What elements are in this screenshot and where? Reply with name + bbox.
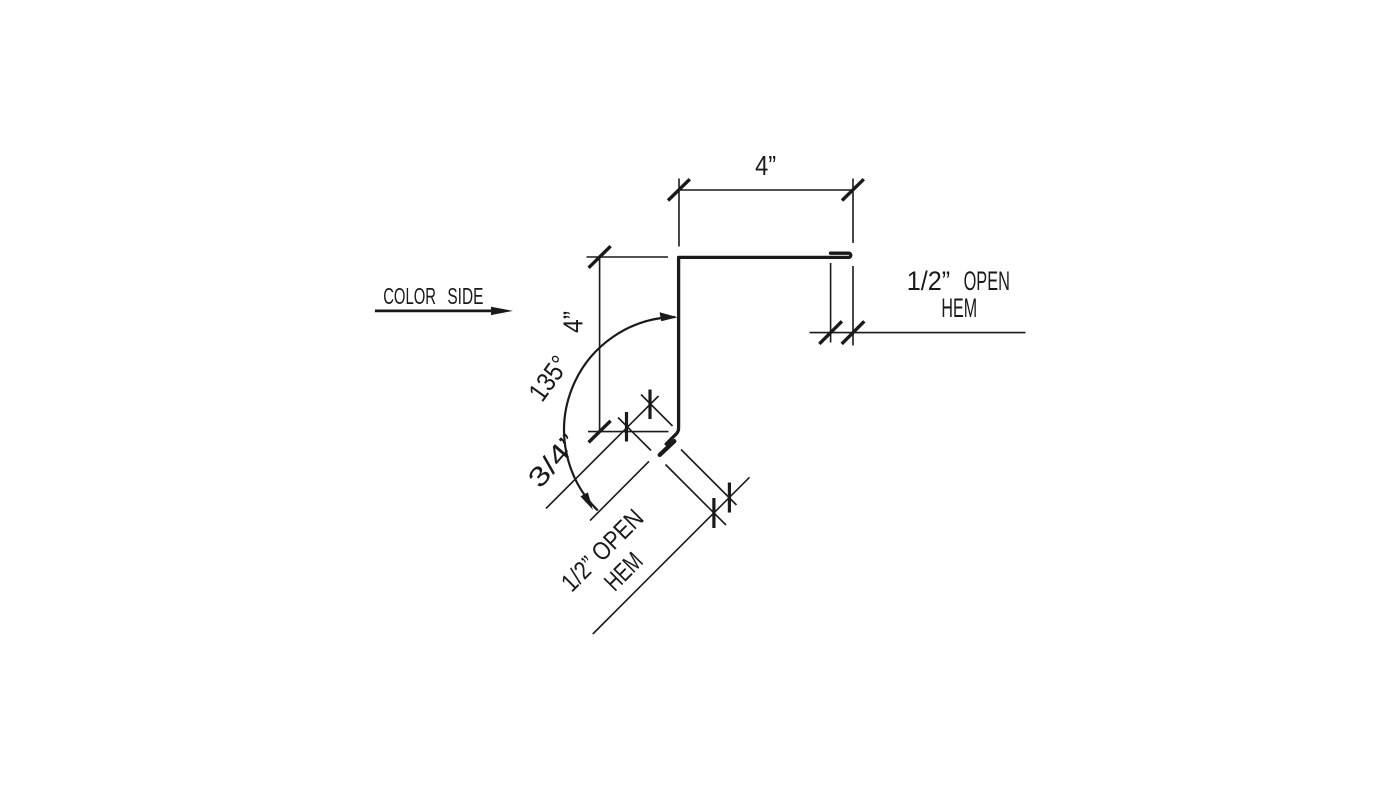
dimension 3/4": extension line through bend bbox=[641, 395, 673, 427]
dimension 3/4": tick T2 bbox=[648, 390, 651, 420]
dimension right 1/2 open hem: right tick bbox=[842, 321, 865, 344]
profile: flashing metal outline with top open hem bbox=[666, 253, 851, 444]
svg-text:4”: 4” bbox=[558, 311, 589, 333]
dimension left 4": top extension line bbox=[587, 256, 669, 258]
color side label: arrowhead bbox=[491, 307, 513, 315]
dimension bottom 1/2 open hem: dimension line bbox=[593, 477, 750, 634]
dimension left 4": dimension line bbox=[599, 257, 601, 432]
dimension 3/4": tick T1 bbox=[625, 412, 628, 442]
dimension bottom 1/2 open hem: rotated text bbox=[556, 504, 671, 619]
dimension right 1/2 open hem: right extension line bbox=[852, 266, 854, 346]
dimension right 1/2 open hem: dimension line bbox=[810, 332, 1026, 334]
dimension left 4": bottom extension line bbox=[588, 431, 669, 433]
dimension top 4": dimension line bbox=[679, 189, 853, 191]
dimension bottom 1/2 open hem: extension line 1 bbox=[681, 450, 737, 506]
svg-text:OPEN: OPEN bbox=[964, 266, 1010, 296]
dimension top 4": left extension line bbox=[678, 179, 680, 247]
color side label: leader line bbox=[375, 310, 495, 313]
angle 135 arc: face extension segment bbox=[590, 461, 649, 520]
dimension 3/4": extension line through fold bbox=[618, 418, 651, 451]
svg-text:1/2”: 1/2” bbox=[907, 266, 950, 296]
profile: bottom open hem dash bbox=[660, 441, 675, 455]
angle 135 arc: bottom arrowhead bbox=[580, 492, 593, 509]
dimension left 4": bottom tick bbox=[589, 421, 611, 443]
dimension right 1/2 open hem: left extension line bbox=[830, 263, 832, 343]
dimension left 4": top tick bbox=[589, 246, 611, 268]
dimension top 4": right extension line bbox=[852, 179, 854, 244]
dimension bottom 1/2 open hem: tick T1 bbox=[712, 498, 715, 528]
svg-text:COLOR: COLOR bbox=[383, 283, 436, 309]
dimension bottom 1/2 open hem: extension line 2 bbox=[666, 465, 727, 526]
angle 135 arc bbox=[564, 317, 675, 511]
svg-text:HEM: HEM bbox=[941, 293, 977, 323]
svg-text:4”: 4” bbox=[755, 150, 776, 181]
dimension top 4": right tick bbox=[842, 179, 864, 200]
angle 135 arc: top arrowhead bbox=[660, 312, 678, 321]
dimension top 4": left tick bbox=[668, 179, 690, 200]
dimension right 1/2 open hem: left tick bbox=[819, 321, 842, 344]
dimension bottom 1/2 open hem: tick T2 bbox=[728, 483, 731, 513]
svg-text:SIDE: SIDE bbox=[447, 283, 483, 309]
dimension 3/4": dimension line bbox=[546, 396, 659, 509]
